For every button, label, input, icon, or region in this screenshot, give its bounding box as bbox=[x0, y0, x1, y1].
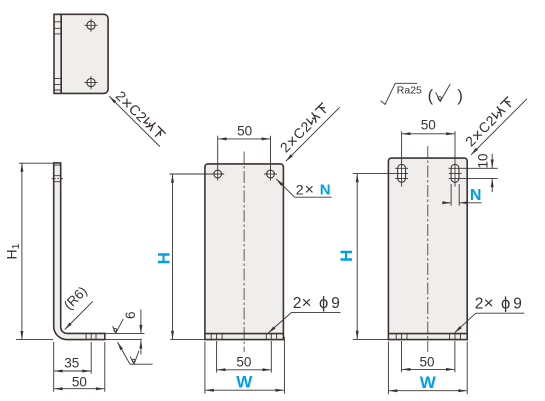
W dim (right) bbox=[389, 390, 467, 392]
R6 leader bbox=[65, 301, 93, 329]
H1 dimension line bbox=[21, 163, 23, 339]
foot bottom edge extension bbox=[105, 339, 142, 341]
surface mark on top face bbox=[113, 319, 124, 333]
hole edge lines on upright bbox=[54, 176, 61, 182]
top view hole 1 bbox=[87, 21, 95, 29]
H1 extension line bottom bbox=[16, 339, 53, 341]
W dim (front) bbox=[205, 389, 284, 391]
hole centerline ext left (H datum) bbox=[170, 173, 225, 175]
hole 50 extension lines bbox=[218, 136, 271, 181]
H datum centerline (right) bbox=[353, 172, 408, 174]
chamfer leader (right) bbox=[471, 99, 527, 155]
right plate body bbox=[388, 158, 467, 340]
svg-text:): ) bbox=[457, 87, 463, 105]
slot left bbox=[398, 164, 406, 182]
right foot line bbox=[388, 333, 467, 335]
bottom 50 ext lines (front) bbox=[217, 341, 272, 373]
right centerline bbox=[427, 146, 429, 352]
svg-text:2×N: 2×N bbox=[296, 181, 331, 198]
check symbol in parens bbox=[436, 84, 451, 102]
svg-text:50: 50 bbox=[236, 354, 251, 369]
svg-text:(: ( bbox=[428, 87, 434, 105]
svg-text:50: 50 bbox=[237, 124, 252, 139]
W ext lines (front) bbox=[205, 337, 285, 394]
front foot line bbox=[205, 333, 284, 335]
slot right bbox=[451, 164, 459, 182]
phi9 leader (front) bbox=[268, 312, 291, 333]
2xN leader (front) bbox=[276, 179, 294, 197]
svg-text:H: H bbox=[337, 250, 356, 262]
top view bend tick marks bbox=[54, 22, 61, 90]
slot arc-center ticks left bbox=[395, 168, 408, 178]
dim 35 (side) bbox=[54, 370, 90, 372]
front hole left bbox=[214, 170, 222, 178]
hole centerline on upright bbox=[52, 178, 63, 180]
front plate body bbox=[205, 164, 284, 340]
dim 50 top (front) bbox=[218, 138, 270, 140]
svg-text:Ra25: Ra25 bbox=[397, 84, 422, 96]
phi9 leader (right) bbox=[455, 313, 476, 333]
chamfer leader (front) bbox=[286, 107, 340, 161]
N dim arrows bbox=[444, 202, 451, 204]
front hole right bbox=[267, 170, 275, 178]
chamfer note 2xC2 (right) bbox=[462, 94, 519, 151]
thickness dim 6 arrows bbox=[140, 310, 142, 334]
dim 50 top (right) bbox=[402, 133, 454, 135]
surface mark symbol (bottom) bbox=[130, 351, 139, 364]
L-profile body bbox=[54, 163, 105, 340]
N ext lines (slot width) bbox=[451, 184, 459, 206]
svg-text:50: 50 bbox=[421, 118, 436, 133]
bottom dim 50 (right) bbox=[402, 368, 454, 370]
bottom dim 50 (front) bbox=[217, 369, 271, 371]
svg-text:50: 50 bbox=[419, 354, 434, 369]
chamfer note 2xC2 (front) bbox=[277, 100, 334, 157]
svg-text:W: W bbox=[420, 373, 437, 392]
H1 extension line top bbox=[19, 162, 54, 164]
H bottom ext (front) bbox=[170, 339, 205, 341]
chamfer note 2xC2 (top view) bbox=[111, 88, 168, 145]
surface finish note: radical bbox=[381, 83, 418, 104]
H bottom ext (right) bbox=[353, 339, 389, 341]
svg-text:N: N bbox=[470, 187, 482, 204]
slot arc-center ticks right + 10 ext bbox=[449, 168, 498, 178]
foot top edge extension bbox=[105, 332, 145, 334]
dim 50 (side) bbox=[54, 388, 104, 390]
top view bend line bbox=[60, 14, 62, 93]
H dim (front) bbox=[172, 174, 174, 339]
H dim (right) bbox=[356, 174, 358, 339]
top view hole 2 bbox=[87, 79, 95, 87]
front foot hole ticks bbox=[211, 334, 276, 340]
svg-text:6: 6 bbox=[123, 312, 138, 320]
svg-text:W: W bbox=[236, 373, 253, 392]
svg-text:H: H bbox=[154, 252, 173, 264]
top view body bbox=[54, 14, 108, 93]
W ext lines (right) bbox=[388, 342, 467, 395]
foot hole edge ticks bbox=[86, 333, 96, 339]
front centerline bbox=[243, 152, 245, 353]
svg-text:35: 35 bbox=[64, 356, 79, 371]
svg-text:50: 50 bbox=[72, 374, 87, 389]
dim 10 (slot pitch) bbox=[491, 154, 493, 168]
slot vertical centerlines / 50 ext bbox=[402, 131, 455, 186]
bottom 50 ext lines (right) bbox=[402, 341, 455, 372]
svg-text:10: 10 bbox=[475, 153, 490, 168]
chamfer leader (top view) bbox=[109, 96, 160, 146]
right foot hole ticks bbox=[396, 334, 460, 340]
surface mark leader (bottom face) bbox=[118, 342, 131, 364]
top face line bbox=[54, 164, 61, 166]
35 extension lines (side) bbox=[54, 342, 105, 392]
hole crosshair right bbox=[264, 173, 277, 175]
